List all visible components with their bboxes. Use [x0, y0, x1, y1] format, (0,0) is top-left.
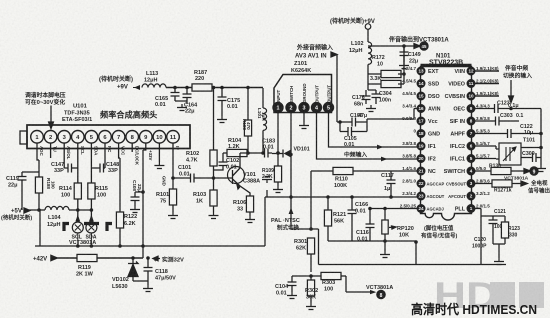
wire PAL line to R301: [291, 229, 319, 265]
capacitor C120 1000P: [472, 237, 487, 250]
capacitor C183 0.01: [248, 139, 275, 158]
Z101 pin 4: [311, 102, 321, 112]
capacitor C309: [521, 148, 541, 163]
IC N101 pin 19: [417, 142, 425, 150]
wire bus under connector: [35, 210, 265, 246]
resistor R106 33: [233, 186, 255, 223]
note measured 32V: [162, 256, 184, 264]
IC N101 pin 1: [467, 205, 475, 213]
capacitor C105 0.01: [338, 119, 367, 148]
capacitor C106 47u electrolytic: [337, 113, 367, 127]
filter T101: [499, 138, 535, 166]
terminal circle +9V: [365, 24, 371, 30]
tuner pin 6: [99, 131, 112, 144]
wire SIF input arrow down: [509, 80, 514, 103]
wire +5V feed: [24, 208, 45, 213]
tuner pin 2: [44, 131, 57, 144]
resistor R115 100: [88, 168, 108, 248]
IC N101 pin 2: [467, 192, 475, 200]
IC N101 pin 13: [417, 67, 425, 75]
capacitor C101 0.01: [171, 165, 228, 183]
IC N101 pin 6: [467, 142, 475, 150]
IC Z101 body: [274, 75, 332, 113]
diode VD101: [272, 147, 310, 158]
resistor R109 2.2K: [262, 151, 282, 186]
node AV audio input: [295, 44, 333, 60]
capacitor C304 100n: [368, 90, 392, 104]
inductor L101 1uH: [257, 88, 267, 153]
IC N101 pin 15: [417, 92, 425, 100]
node +9V standby terminal (top): [330, 17, 375, 25]
resistor R303 100: [311, 272, 346, 292]
tuner title 频率合成高频头: [100, 110, 157, 120]
capacitor C118 47u/50V electrolytic: [144, 256, 177, 285]
wire +9V rail: [166, 87, 263, 89]
resistor R104 1.2K: [223, 138, 247, 157]
ground below tuner pin 10: [154, 162, 164, 169]
tuner pin 1: [31, 131, 44, 144]
IC N101 pin 7: [467, 130, 475, 138]
resistor R103 1K: [193, 190, 217, 212]
capacitor C104 0.01: [275, 274, 313, 296]
resistor R130 on SWITCH line: [475, 164, 530, 175]
capacitor C303 0.1: [475, 113, 523, 126]
capacitor C119 22u: [6, 172, 39, 210]
IC N101 pin 11: [467, 80, 475, 88]
ground below C304/C176: [366, 105, 376, 112]
wire collector to R104: [240, 153, 247, 166]
wire +9V arrow into rail: [133, 87, 140, 89]
ground below C118 and VD102: [143, 285, 153, 292]
IC left pin voltage annotations: [400, 66, 417, 209]
IC N101 STV8223B body: [421, 65, 472, 220]
resistor R172 10: [368, 55, 404, 78]
wire IFLC2/IFLC1 lines to T101: [475, 146, 499, 159]
ground stub above PAL label: [262, 177, 272, 197]
resistor R114 100: [59, 168, 81, 248]
ground below C104: [287, 292, 297, 299]
ground below Z101 pin3: [299, 113, 309, 129]
resistor R188 100: [35, 177, 55, 210]
tuner pin 3: [58, 131, 71, 144]
ground below R101: [168, 212, 178, 219]
IC N101 pin 16: [417, 105, 425, 113]
capacitor C117 1u: [381, 171, 396, 199]
tuner pin stubs: [37, 143, 173, 213]
tuner pin 8: [126, 131, 139, 144]
tuner pin 4: [72, 131, 85, 144]
transistor V101 C388A: [228, 166, 261, 189]
connector housing to MCU (SCL/SDA): [64, 215, 112, 247]
capacitor C164 22u electrolytic: [175, 86, 198, 115]
tuner pin names: [39, 146, 180, 186]
Z101 pin 3: [299, 102, 309, 112]
tuner voltage note: [25, 91, 66, 106]
ground below C149: [399, 62, 409, 69]
capacitor C108 22u: [131, 180, 144, 206]
wire PLL pin filter: [475, 209, 505, 266]
resistor R110 100K on NC line: [311, 167, 420, 229]
wire video output stubs pins 12-10: [475, 71, 499, 96]
node CVBS output label: [528, 179, 550, 195]
Z101 pin 1: [273, 102, 283, 112]
wire Z101 pin1 pin2 stubs: [278, 113, 291, 155]
resistor R127 1K on CVBS out: [475, 180, 527, 194]
ground below R103: [209, 212, 219, 219]
IC N101 left pin names: [427, 69, 445, 212]
resistor R171 3.3K: [368, 44, 406, 87]
wire AV input line: [331, 52, 337, 122]
wire pointer from note to tuner pin2: [49, 106, 54, 129]
inductor L104 12uH: [37, 206, 92, 228]
inductor L113 12uH: [142, 71, 166, 88]
capacitor C175 0.01: [218, 86, 241, 116]
IC N101 pin 24: [417, 205, 425, 213]
resistor R123 330: [501, 222, 520, 239]
resistor R102 4.7K: [186, 86, 217, 190]
wire bottom long bus: [319, 241, 507, 265]
watermark gray logo HD: [434, 275, 544, 316]
IC N101 pin 5: [467, 155, 475, 163]
tuner U101 body: [27, 125, 190, 149]
IC right pin voltage annotations: [476, 66, 499, 209]
IC Z101 K6264K designator: [291, 61, 311, 74]
zener diode VD102 L5630: [112, 256, 138, 290]
tuner antenna tab: [20, 131, 27, 144]
ground right bus: [536, 165, 546, 172]
capacitor C102 0.01: [214, 153, 240, 171]
IC N101 pin 18: [417, 130, 425, 138]
capacitor C149 22u: [400, 46, 421, 65]
ground below PLL filter: [494, 258, 504, 265]
capacitor C123 0.1u on OEC line: [475, 101, 541, 114]
wire AGC line y197: [265, 155, 420, 230]
node to VCT3801A pin9: [346, 276, 393, 299]
IC N101 pin 20: [417, 155, 425, 163]
capacitor C165 0.01: [155, 86, 180, 108]
resistor R301 62K: [294, 227, 315, 272]
node switch to VCT3801A pin9: [504, 167, 538, 182]
ground below C108: [130, 206, 140, 213]
ground below R109: [273, 186, 283, 193]
tuner U101 designator: [62, 104, 92, 124]
node PAL/NTSC switch: [271, 218, 300, 232]
IC N101 pin 8: [467, 117, 475, 125]
wire bottom bus y245: [264, 197, 266, 246]
resistor R187 220: [192, 70, 212, 91]
node +42V: [33, 257, 47, 263]
wire IF output lines to N101 (中频输入): [317, 113, 421, 161]
tuner pin 11: [167, 131, 180, 144]
IC N101 pin 23: [417, 192, 425, 200]
IC N101 pin 3: [467, 180, 475, 188]
tuner pin 9: [140, 131, 153, 144]
Z101 pin 5: [323, 102, 333, 112]
ground below RP120: [380, 251, 390, 258]
ground below C164: [177, 104, 187, 111]
IC N101 pin 4: [467, 167, 475, 175]
IC N101 pin 22: [417, 180, 425, 188]
wire right bus vertical: [540, 109, 542, 166]
resistor R119 2K 1W: [76, 254, 97, 277]
tuner pin 10: [153, 131, 166, 144]
Z101 pin 2: [286, 102, 296, 112]
transistor pair circles SCL SDA: [72, 222, 83, 233]
wire audio output line y46: [368, 44, 420, 49]
resistor R121 56K: [324, 195, 346, 241]
potentiometer RP120 10K: [382, 207, 414, 251]
IC N101 pin 10: [467, 92, 475, 100]
node audio out to VCT3801A: [388, 36, 449, 51]
ground below R302: [306, 303, 316, 310]
node SIF switching input: [503, 64, 532, 80]
note pin voltage legend: [421, 224, 458, 240]
resistor R101 75: [156, 178, 177, 212]
capacitor C121 100n: [489, 209, 507, 230]
wire 33V riser to tuner: [142, 150, 144, 258]
tuner pin 7: [112, 131, 125, 144]
wire +42V rail: [51, 256, 143, 261]
resistor R108 470: [242, 86, 252, 155]
resistor R122 6.2K: [116, 212, 137, 248]
IC N101 right pin names: [444, 69, 467, 213]
IC N101 pin 21: [417, 167, 425, 175]
Z101 pin names: [276, 83, 332, 103]
node +5V (standby): [1, 209, 32, 222]
capacitor C176 68n: [352, 90, 371, 108]
wire AGCADJ line y208.5: [370, 208, 420, 210]
IC N101 pin 14: [417, 80, 425, 88]
watermark text 高清时代 HDTIMES.CN: [411, 301, 537, 317]
resistor R302 36K: [305, 276, 318, 303]
capacitor C166 0.01: [348, 195, 369, 241]
ground below C175: [217, 116, 227, 123]
IC N101 pin 9: [467, 105, 475, 113]
capacitor C122 10u electrolytic: [475, 124, 541, 138]
tuner pin 5: [85, 131, 98, 144]
capacitor C116 0.01: [356, 207, 375, 243]
IC N101 designator: [429, 54, 463, 67]
capacitor C147 33P: [51, 162, 78, 174]
inductor L102 12uH: [349, 30, 372, 91]
wire AGC filter bottom rail: [328, 240, 416, 242]
capacitor C148 33P: [91, 162, 119, 174]
node +9V supply (standby) label top-left: [99, 75, 133, 91]
wire AV line to AVIN: [367, 109, 420, 120]
IC N101 pin 12: [467, 67, 475, 75]
IC N101 pin 17: [417, 117, 425, 125]
